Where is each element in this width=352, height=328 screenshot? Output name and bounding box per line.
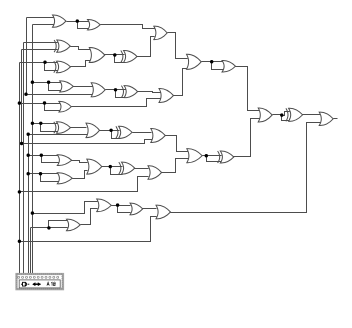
wire G16 out [166, 136, 189, 152]
junction row8 T [39, 172, 42, 175]
wire T7 loop [207, 156, 222, 162]
OR gate G13 [187, 54, 202, 69]
wire row3 input [20, 62, 59, 64]
wire row7 input [29, 155, 60, 157]
junction G13 out [210, 60, 213, 63]
junction bus L2 G16 [20, 142, 23, 145]
junction bus L1 row5 [18, 101, 21, 104]
wire G20 bottom input [20, 177, 149, 192]
OR gate G15 [86, 123, 100, 138]
OR gate (tied inputs) T1 [88, 19, 101, 29]
XOR gate G17 [187, 149, 202, 163]
junction GA out [280, 113, 283, 116]
wire G14 out [71, 127, 87, 129]
wire G6 out [71, 61, 91, 67]
junction bus L5 G15 [27, 133, 30, 136]
wire G10 bottom input [27, 94, 94, 96]
XOR gate (tied inputs) T8 [122, 162, 135, 174]
bus line L1 [19, 63, 21, 275]
wire G20 out [162, 159, 189, 173]
bus line L7 [32, 25, 34, 275]
junction bus L4 G10 [24, 93, 27, 96]
wire TB top input step [282, 112, 290, 116]
wire G21 out [112, 205, 131, 207]
wire G12b out [174, 69, 188, 96]
OR gate G20 [148, 166, 162, 180]
junction row5 T [43, 101, 46, 104]
wire TB out [303, 114, 321, 116]
bus line L5 [28, 135, 30, 275]
OR gate G16 [151, 128, 166, 142]
wire row5 input [20, 103, 64, 105]
wire row5 lower loop [45, 104, 61, 111]
junction bus L7 row6 [31, 122, 34, 125]
XOR gate (tied inputs) T2 [124, 50, 138, 62]
wire TB loop [282, 116, 290, 121]
OR gate G9 [154, 26, 167, 39]
wire T2 out [137, 37, 155, 57]
junction G21 out [116, 203, 119, 206]
wire T9 loop [212, 62, 224, 70]
bus line L2 [21, 50, 23, 144]
junction row3 T [43, 61, 46, 64]
wire row8 input [29, 173, 59, 175]
wire G23 out [81, 209, 98, 225]
OR gate G22 [57, 173, 72, 184]
wire row3 lower loop [45, 63, 59, 71]
wire T8 out [135, 168, 149, 170]
XOR gate (tied inputs) T4 [124, 86, 138, 98]
OR gate G8 [60, 81, 74, 92]
wire row2 top input [24, 42, 58, 44]
wire row8 lower loop [41, 174, 59, 182]
wire G3 out [71, 47, 91, 50]
wire T4 out [138, 92, 161, 93]
wire G1 out [67, 21, 89, 23]
OR gate (tied inputs) T10 [130, 203, 143, 215]
XOR gate (tied inputs) T6 [119, 126, 133, 138]
wire GA out [273, 114, 283, 116]
OR gate G12 [159, 88, 174, 102]
junction G15 out [109, 129, 112, 132]
wire G24 out [171, 123, 321, 213]
wire G22 out [73, 171, 88, 179]
wire row2 bottom input [22, 49, 58, 51]
wire T6 loop [112, 131, 121, 139]
wire G10 out [106, 89, 126, 91]
wire G15 out [100, 130, 120, 132]
junction G10 out [114, 88, 117, 91]
junction bus L1 G24 [18, 240, 21, 243]
connector J1 double arrow [33, 283, 40, 285]
XOR gate G3 [57, 40, 71, 52]
wire G9 out [168, 33, 188, 59]
wire row4 input [33, 82, 61, 84]
wire row4 lower loop [49, 83, 62, 91]
wire T10 out [143, 208, 157, 210]
junction row6 T [39, 122, 42, 125]
OR gate G1 [53, 15, 67, 27]
wire row1 top input [27, 17, 54, 19]
junction bus L7 row4 [31, 81, 34, 84]
OR gate G18 [57, 155, 71, 166]
wire T1 out [101, 25, 155, 29]
connector J1 frame ticks [16, 273, 63, 289]
OR gate G10 [91, 83, 105, 97]
wire row11 input [31, 227, 68, 229]
wire T6 out [133, 132, 152, 134]
OR gate U30 [258, 108, 272, 122]
wire G24 bottom input [20, 217, 157, 242]
junction row11 T [47, 226, 50, 229]
connector J1 pin circles [18, 276, 20, 278]
OR gate G23 [67, 219, 81, 231]
wire row11 upper loop [49, 221, 68, 228]
wire G13 out [202, 61, 223, 63]
connector J1 label A 1B [47, 282, 49, 285]
wire G16 bottom input [22, 140, 153, 144]
wire G18 out [72, 161, 88, 163]
OR gate G21 [97, 199, 112, 212]
XOR gate G14 [57, 122, 71, 134]
wire T1 loop [78, 22, 89, 29]
junction G17 out [205, 154, 208, 157]
wire G15 bottom input [29, 134, 89, 136]
junction G1 out [76, 19, 79, 22]
wire row6 input [33, 123, 59, 125]
wire G17 out [203, 155, 222, 157]
OR gate (tied inputs) T7 [220, 151, 234, 163]
wire G11 out [72, 99, 161, 107]
wire row10 input [33, 202, 98, 214]
junction G4 out [113, 53, 116, 56]
wire row6 lower loop [41, 124, 59, 132]
OR gate G11 [59, 101, 71, 112]
wire T8 loop [111, 167, 123, 175]
OR gate U32 (output) [319, 112, 333, 125]
wire G8 out [74, 86, 93, 88]
junction bus L5 row7 [27, 154, 30, 157]
wire G4 out [105, 54, 125, 56]
wire row7 lower loop [42, 156, 59, 163]
connector J1 inner box [19, 280, 60, 288]
wire G19 out [102, 166, 123, 168]
junction bus L7 row10 [31, 211, 34, 214]
wire T4 loop [116, 90, 126, 98]
wire T2 loop [115, 55, 125, 63]
XOR gate (tied inputs) U31 [289, 108, 303, 121]
connector J1 gate glyph [23, 282, 27, 286]
connector J1 outer frame [17, 274, 64, 289]
OR gate G19 [87, 159, 102, 174]
junction bus L5 row8 [27, 172, 30, 175]
bus line L4 [26, 18, 28, 94]
junction row4 T [47, 81, 50, 84]
bus line L6 [30, 228, 32, 275]
OR gate (tied inputs) T9 [222, 60, 236, 72]
OR gate G24 [156, 205, 171, 219]
wire T10 loop [118, 206, 131, 213]
OR gate G4 [89, 47, 105, 62]
wire row1 bottom input [33, 24, 54, 26]
XOR gate G6 [57, 61, 71, 73]
bus line L3 [23, 43, 25, 275]
wire T7 out [234, 119, 260, 157]
junction bus L1 G20 [18, 190, 21, 193]
junction G19 out [109, 165, 112, 168]
junction row7 T [40, 154, 43, 157]
wire T9 out [236, 67, 260, 111]
wire GC out [334, 118, 338, 120]
